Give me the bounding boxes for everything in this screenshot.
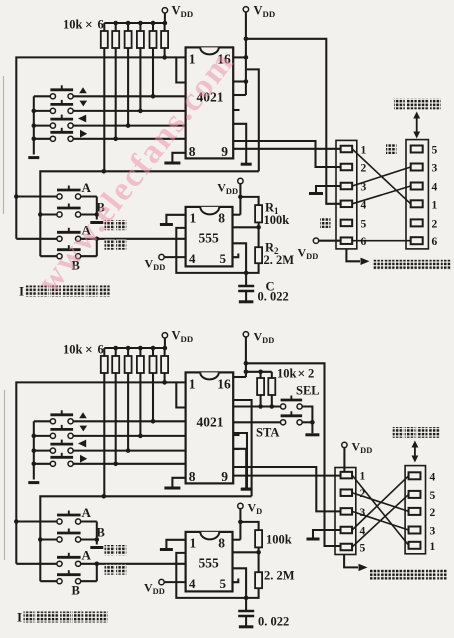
wire - pull-up column drops bbox=[164, 373, 166, 382]
wire - stub pin10 bbox=[233, 434, 239, 436]
ground - 555 pin 1 bbox=[166, 540, 185, 548]
solder pad 1 (bottom) bbox=[341, 472, 353, 479]
ground - capacitor bbox=[239, 300, 254, 303]
svg-text:1: 1 bbox=[430, 541, 436, 553]
svg-text:2. 2M: 2. 2M bbox=[264, 253, 295, 267]
svg-text:0. 022: 0. 022 bbox=[258, 615, 289, 629]
resistor 10k b (bottom) bbox=[271, 372, 273, 378]
svg-text:9: 9 bbox=[221, 469, 228, 484]
wire - pad3 to plug3 (top) bbox=[352, 167, 411, 186]
wire - 4021 output to pad 2 (top) bbox=[233, 141, 340, 167]
svg-text:SEL: SEL bbox=[296, 384, 320, 398]
pushbutton A1 bbox=[57, 519, 62, 524]
wire - B button line rail bbox=[40, 496, 251, 581]
ground - A1/B1 side bbox=[90, 221, 103, 224]
wire - pin16 stub (bottom) bbox=[233, 376, 246, 378]
wire - 555 trigger/threshold loop bbox=[176, 228, 258, 273]
svg-text:1: 1 bbox=[190, 211, 197, 226]
plug pad 4 (bottom) bbox=[409, 472, 421, 479]
svg-text:2: 2 bbox=[308, 367, 314, 381]
wire - button rows to 4021 parallel inputs bbox=[73, 95, 185, 97]
svg-text:100k: 100k bbox=[266, 533, 292, 547]
pushbutton B1 bbox=[57, 537, 62, 542]
wire - A2/B2 rapid-fire line to 555 trigger bbox=[81, 238, 186, 240]
svg-text:×: × bbox=[85, 342, 93, 357]
watermark www.elecfans.com bbox=[30, 44, 242, 300]
svg-text:555: 555 bbox=[199, 231, 220, 246]
arrow - plug wiring (bottom) bbox=[414, 445, 416, 458]
plug pad 5 (top) bbox=[411, 146, 423, 153]
svg-text:10k: 10k bbox=[63, 18, 83, 32]
svg-text:2: 2 bbox=[361, 163, 367, 175]
wire - 4021 pin 9 to pad 1 (bottom) bbox=[233, 475, 340, 477]
page edge artifacts bbox=[3, 76, 5, 214]
ground - direction button common bbox=[28, 156, 39, 159]
ground - direction button common bbox=[28, 481, 39, 484]
svg-text:1: 1 bbox=[361, 145, 367, 157]
svg-text:5: 5 bbox=[220, 251, 227, 266]
pushbutton RIGHT bbox=[50, 136, 55, 141]
wire - 10k x2 bus (bottom) bbox=[246, 371, 272, 373]
svg-text:1: 1 bbox=[190, 536, 197, 551]
plug pad 2 (bottom) bbox=[409, 508, 421, 515]
svg-text:3: 3 bbox=[432, 163, 438, 175]
pushbutton LEFT bbox=[50, 448, 55, 453]
wire - 4021 output to pad 3 (bottom) bbox=[233, 467, 340, 511]
solder pad 5 (bottom) bbox=[341, 544, 353, 551]
pushbutton A2 rapid-fire bbox=[57, 561, 62, 566]
connector block - PCB solder side (bottom) bbox=[335, 468, 356, 555]
svg-text:16: 16 bbox=[217, 377, 231, 392]
svg-text:B: B bbox=[72, 584, 80, 598]
wire - pad4 to plug4 (bottom) bbox=[352, 476, 409, 530]
wire - 4021 pin 9 to pad 1 (top) bbox=[233, 148, 340, 150]
plug pad 3 (bottom) bbox=[409, 527, 421, 534]
label PCB solder-side connection points (top) bbox=[346, 249, 360, 261]
wire - 555 pin 6 threshold bbox=[233, 243, 247, 273]
ground - 4021 right stub (bottom) bbox=[233, 433, 247, 488]
power VDD at 4021 pin 16 (bottom) bbox=[243, 332, 248, 337]
wire - pad4 to plug4 (top) bbox=[352, 186, 411, 204]
wire - left common of direction buttons bbox=[33, 96, 35, 154]
plug pad 1 (bottom) bbox=[409, 542, 421, 549]
pushbutton STA (bottom) bbox=[281, 420, 286, 425]
label kong empty - left of pad 5 (top) bbox=[320, 218, 331, 229]
resistor R1 100k bbox=[240, 522, 258, 530]
svg-text:8: 8 bbox=[218, 211, 225, 226]
svg-text:STA: STA bbox=[256, 426, 279, 440]
svg-text:4: 4 bbox=[189, 251, 196, 266]
svg-text:B: B bbox=[97, 526, 105, 540]
svg-text:1: 1 bbox=[360, 471, 366, 483]
wire - B button line rail bbox=[40, 171, 258, 256]
pushbutton B2 rapid-fire bbox=[57, 579, 62, 584]
pushbutton LEFT bbox=[50, 123, 55, 128]
svg-text:9: 9 bbox=[221, 144, 228, 159]
svg-text:5: 5 bbox=[220, 576, 227, 591]
power VDD at 555 pin 8 bbox=[238, 178, 243, 183]
power VDD at pad 1 (bottom) bbox=[342, 442, 347, 447]
label plug wiring (bottom) bbox=[393, 427, 404, 438]
IC 4021 shift register bbox=[186, 47, 234, 158]
svg-text:1: 1 bbox=[189, 377, 196, 392]
wire - A2/B2 rapid-fire line to 555 trigger bbox=[81, 563, 186, 565]
power VDD supply of pull-up bank bbox=[162, 8, 167, 13]
svg-text:0. 022: 0. 022 bbox=[258, 290, 289, 304]
wire - stub pin10 bbox=[233, 109, 239, 111]
solder pad 3 (top) bbox=[341, 183, 353, 190]
wire - A button line loop bbox=[16, 57, 185, 238]
wire - button rows to 4021 parallel inputs bbox=[73, 420, 185, 422]
power VDD at 4021 pin 16 (top) bbox=[243, 7, 248, 12]
wire - 555 trigger/threshold loop bbox=[176, 553, 258, 598]
svg-text:4: 4 bbox=[432, 182, 438, 194]
svg-text:2. 2M: 2. 2M bbox=[264, 569, 295, 583]
svg-text:10k: 10k bbox=[277, 367, 297, 381]
resistor R2 2.2M bbox=[258, 227, 260, 247]
svg-text:8: 8 bbox=[189, 144, 196, 159]
svg-text:A: A bbox=[82, 505, 92, 520]
power VDD at 555 pin 4 bbox=[159, 254, 164, 259]
svg-text:555: 555 bbox=[199, 556, 220, 571]
svg-text:4: 4 bbox=[189, 576, 196, 591]
solder pad 1 (top) bbox=[341, 146, 353, 153]
pushbutton SEL (bottom) bbox=[281, 404, 286, 409]
svg-text:8: 8 bbox=[218, 536, 225, 551]
labels rapid-fire bbox=[105, 545, 115, 555]
power VDD at 555 pin 8 bbox=[238, 503, 243, 508]
solder pad 4 (bottom) bbox=[341, 527, 353, 534]
ground - 4021 pin 8 bbox=[172, 153, 185, 162]
label PCB solder-side connection points (bottom) bbox=[344, 555, 358, 568]
wire - 4021 parallel-load VDD ties (top) bbox=[245, 39, 247, 95]
wire - 555 pin 5 stub bbox=[233, 579, 239, 583]
pushbutton DOWN bbox=[50, 108, 55, 113]
svg-text:5: 5 bbox=[430, 490, 436, 502]
connector block - PCB solder side (top) bbox=[336, 140, 357, 249]
svg-text:×: × bbox=[298, 366, 306, 381]
wire - pad5 to plug5 (bottom) bbox=[352, 494, 409, 547]
wire - A1/B1 common to ground bbox=[81, 520, 97, 522]
resistor R2 2.2M bbox=[258, 552, 260, 572]
power VDD at 555 pin 4 bbox=[159, 579, 164, 584]
arrow labels up down left right bbox=[79, 412, 87, 418]
pushbutton B1 bbox=[57, 212, 62, 217]
resistor R1 100k bbox=[240, 197, 258, 205]
wire - SEL line (bottom) bbox=[233, 405, 280, 407]
solder pad 5 (top) bbox=[341, 220, 353, 227]
wire - pad3 to plug3 (bottom) bbox=[352, 511, 409, 530]
IC 4021 shift register bbox=[186, 372, 234, 483]
plug pad 2 (top) bbox=[411, 219, 423, 226]
ground - pad 3 (top) bbox=[316, 186, 341, 193]
pushbutton B2 rapid-fire bbox=[57, 254, 62, 259]
pushbutton A1 bbox=[57, 194, 62, 199]
svg-text:4: 4 bbox=[430, 471, 436, 483]
label plug wiring (top) bbox=[394, 99, 405, 110]
svg-text:2: 2 bbox=[432, 218, 438, 230]
svg-text:100k: 100k bbox=[264, 213, 290, 227]
label kong empty - plug top (top) bbox=[386, 144, 397, 155]
wire - 555 pin 7 discharge bbox=[233, 551, 259, 553]
capacitor C 0.022 bbox=[245, 273, 247, 286]
wire - VDD bus across to solder pad 4 (top) bbox=[246, 39, 341, 204]
svg-text:I: I bbox=[17, 610, 22, 625]
connector block - plug side (bottom) bbox=[405, 466, 425, 554]
svg-text:5: 5 bbox=[432, 145, 438, 157]
resistor bank 10k x 6 bbox=[103, 348, 105, 356]
wire - SEL/STA common to ground (bottom) bbox=[302, 407, 312, 434]
resistor bank 10k x 6 bbox=[103, 23, 105, 31]
svg-text:3: 3 bbox=[430, 526, 436, 538]
wire - 555 pin 6 threshold bbox=[233, 568, 247, 598]
IC 555 timer bbox=[186, 207, 233, 267]
plug pad 4 (top) bbox=[411, 183, 423, 190]
ground - pad 4 (bottom) bbox=[313, 530, 340, 538]
svg-text:10k: 10k bbox=[63, 343, 83, 357]
ground - A1/B1 side bbox=[90, 546, 103, 549]
solder pad 2 (top) bbox=[341, 164, 353, 171]
svg-text:6: 6 bbox=[432, 236, 438, 248]
ground - 4021 right side bbox=[233, 124, 246, 163]
labels rapid-fire bbox=[105, 220, 115, 230]
power VDD at pad 6 (top) bbox=[313, 238, 318, 243]
pushbutton UP bbox=[50, 94, 55, 99]
solder pad 2 (bottom) bbox=[341, 489, 353, 496]
svg-text:6: 6 bbox=[98, 343, 104, 357]
ground - 4021 pin 8 bbox=[172, 478, 185, 487]
svg-text:A: A bbox=[82, 548, 92, 563]
wire - pull-up column drops bbox=[164, 48, 166, 57]
wire - VDD bus over resistor bank bbox=[104, 347, 165, 349]
wire - pad2 to plug2 (bottom) bbox=[352, 493, 409, 512]
wire - pad1 to plug1 (bottom) bbox=[352, 475, 409, 545]
arrow labels up down left right bbox=[79, 87, 87, 93]
svg-text:A: A bbox=[82, 180, 92, 195]
solder pad 6 (top) bbox=[341, 237, 353, 244]
wire - A button line loop bbox=[16, 382, 185, 563]
pushbutton RIGHT bbox=[50, 461, 55, 466]
IC 555 timer bbox=[186, 532, 233, 592]
wire - 555 pin 5 stub bbox=[233, 254, 239, 258]
plug pad 5 (bottom) bbox=[409, 491, 421, 498]
arrow - plug wiring (top) bbox=[416, 116, 418, 134]
wire - A1/B1 common to ground bbox=[81, 195, 97, 197]
wire - STA line (bottom) bbox=[233, 421, 280, 423]
ground - 555 pin 1 bbox=[166, 215, 185, 223]
svg-text:1: 1 bbox=[189, 52, 196, 67]
wire - pad6 to plug6 (top) bbox=[352, 240, 411, 242]
wire - 555 pin 7 discharge bbox=[233, 226, 259, 228]
wire - left common of direction buttons bbox=[33, 421, 35, 479]
ground - 4021 right side bbox=[233, 449, 246, 488]
pushbutton UP bbox=[50, 419, 55, 424]
wire - VDD border to pad 5 (bottom) bbox=[246, 363, 340, 546]
resistor 10k a (bottom) bbox=[260, 372, 262, 378]
plug pad 3 (top) bbox=[411, 164, 423, 171]
svg-text:I: I bbox=[19, 284, 24, 299]
solder pad 3 (bottom) bbox=[341, 508, 353, 515]
power VDD supply of pull-up bank bbox=[162, 333, 167, 338]
connector block - plug side (top) bbox=[406, 140, 428, 249]
wire - stub (bottom) bbox=[233, 448, 239, 450]
svg-text:5: 5 bbox=[361, 218, 367, 230]
svg-text:6: 6 bbox=[361, 236, 367, 248]
plug pad 6 (top) bbox=[411, 237, 423, 244]
pushbutton DOWN bbox=[50, 433, 55, 438]
svg-text:8: 8 bbox=[189, 469, 196, 484]
ground - SEL/STA (bottom) bbox=[305, 433, 319, 436]
svg-text:4021: 4021 bbox=[197, 415, 224, 430]
ground - capacitor bbox=[239, 625, 254, 628]
svg-text:5: 5 bbox=[360, 543, 366, 555]
wire - pad1 to plug1 (top) bbox=[352, 149, 411, 204]
solder pad 4 (top) bbox=[341, 201, 353, 208]
svg-text:1: 1 bbox=[432, 199, 438, 211]
wire - VDD bus over resistor bank bbox=[104, 22, 165, 24]
svg-text:6: 6 bbox=[98, 18, 104, 32]
svg-text:×: × bbox=[85, 17, 93, 32]
svg-text:2: 2 bbox=[430, 507, 436, 519]
wire - serial stub to rail (bottom) bbox=[233, 400, 251, 496]
pushbutton A2 rapid-fire bbox=[57, 236, 62, 241]
capacitor C 0.022 bbox=[245, 598, 247, 611]
plug pad 1 (top) bbox=[411, 200, 423, 207]
